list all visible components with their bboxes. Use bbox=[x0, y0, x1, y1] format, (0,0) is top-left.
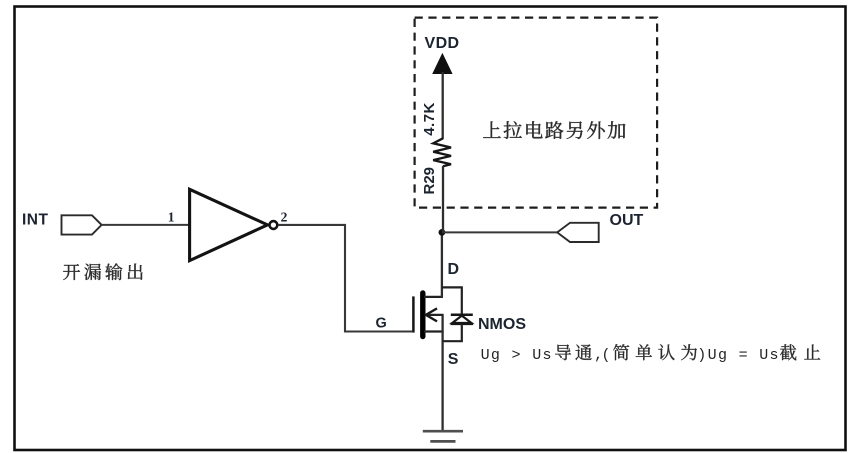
note 截止 bbox=[780, 344, 820, 360]
resistor R29 zigzag bbox=[433, 138, 451, 166]
svg-text:(: ( bbox=[602, 347, 611, 364]
svg-text:S: S bbox=[448, 351, 459, 368]
inverter U1 triangle bbox=[190, 189, 268, 260]
wire resistor to junction bbox=[442, 166, 444, 232]
port INT connector bbox=[62, 215, 102, 234]
svg-text:VDD: VDD bbox=[425, 35, 460, 52]
ground symbol bar 1 bbox=[423, 430, 463, 433]
junction node (drain/resistor/OUT) bbox=[439, 229, 446, 236]
svg-text:2: 2 bbox=[281, 209, 288, 224]
body diode D1 anode bar bbox=[451, 323, 473, 326]
note 开漏输出 bbox=[63, 263, 142, 280]
transistor Q1 drain lead bbox=[424, 296, 443, 298]
body diode loop upper branch bbox=[442, 287, 462, 315]
transistor Q1 gate plate bbox=[412, 296, 415, 332]
svg-text:NMOS: NMOS bbox=[478, 316, 526, 333]
power symbol VDD arrow bbox=[433, 54, 452, 74]
svg-text:OUT: OUT bbox=[610, 212, 644, 229]
svg-text:Ug > Us: Ug > Us bbox=[481, 347, 553, 364]
svg-text:R29: R29 bbox=[421, 167, 438, 195]
svg-text:INT: INT bbox=[22, 212, 49, 229]
svg-text:4.7K: 4.7K bbox=[421, 102, 438, 136]
transistor Q1 channel bar bbox=[420, 293, 425, 337]
inverter output bubble bbox=[270, 221, 278, 229]
wire drain vertical (junction to drain) bbox=[441, 231, 443, 298]
body diode loop lower branch bbox=[443, 324, 462, 341]
body diode D1 cathode bar bbox=[451, 313, 473, 316]
note 导通 bbox=[555, 344, 592, 360]
ground symbol bar 2 bbox=[430, 440, 455, 443]
svg-text:1: 1 bbox=[168, 209, 175, 224]
port OUT connector bbox=[557, 223, 599, 242]
dashed pull-up region box bbox=[415, 18, 657, 208]
wire source vertical (body/source down to ground) bbox=[441, 315, 443, 431]
body diode D1 triangle bbox=[452, 316, 471, 323]
wire VDD to resistor bbox=[442, 72, 444, 139]
note 简单认为 bbox=[613, 344, 697, 360]
transistor Q1 source lead bbox=[424, 330, 444, 332]
note 上拉电路另外加 bbox=[483, 121, 625, 139]
transistor Q1 body arrow bbox=[426, 308, 437, 321]
svg-text:D: D bbox=[448, 261, 460, 278]
svg-text:)Ug = Us: )Ug = Us bbox=[697, 347, 780, 364]
wire junction to OUT bbox=[442, 231, 557, 233]
wire inverter output to gate (right, down, right) bbox=[278, 225, 412, 332]
wire INT to inverter pin1 bbox=[102, 224, 189, 226]
transistor Q1 body lead bbox=[425, 314, 444, 316]
svg-text:G: G bbox=[376, 316, 387, 332]
